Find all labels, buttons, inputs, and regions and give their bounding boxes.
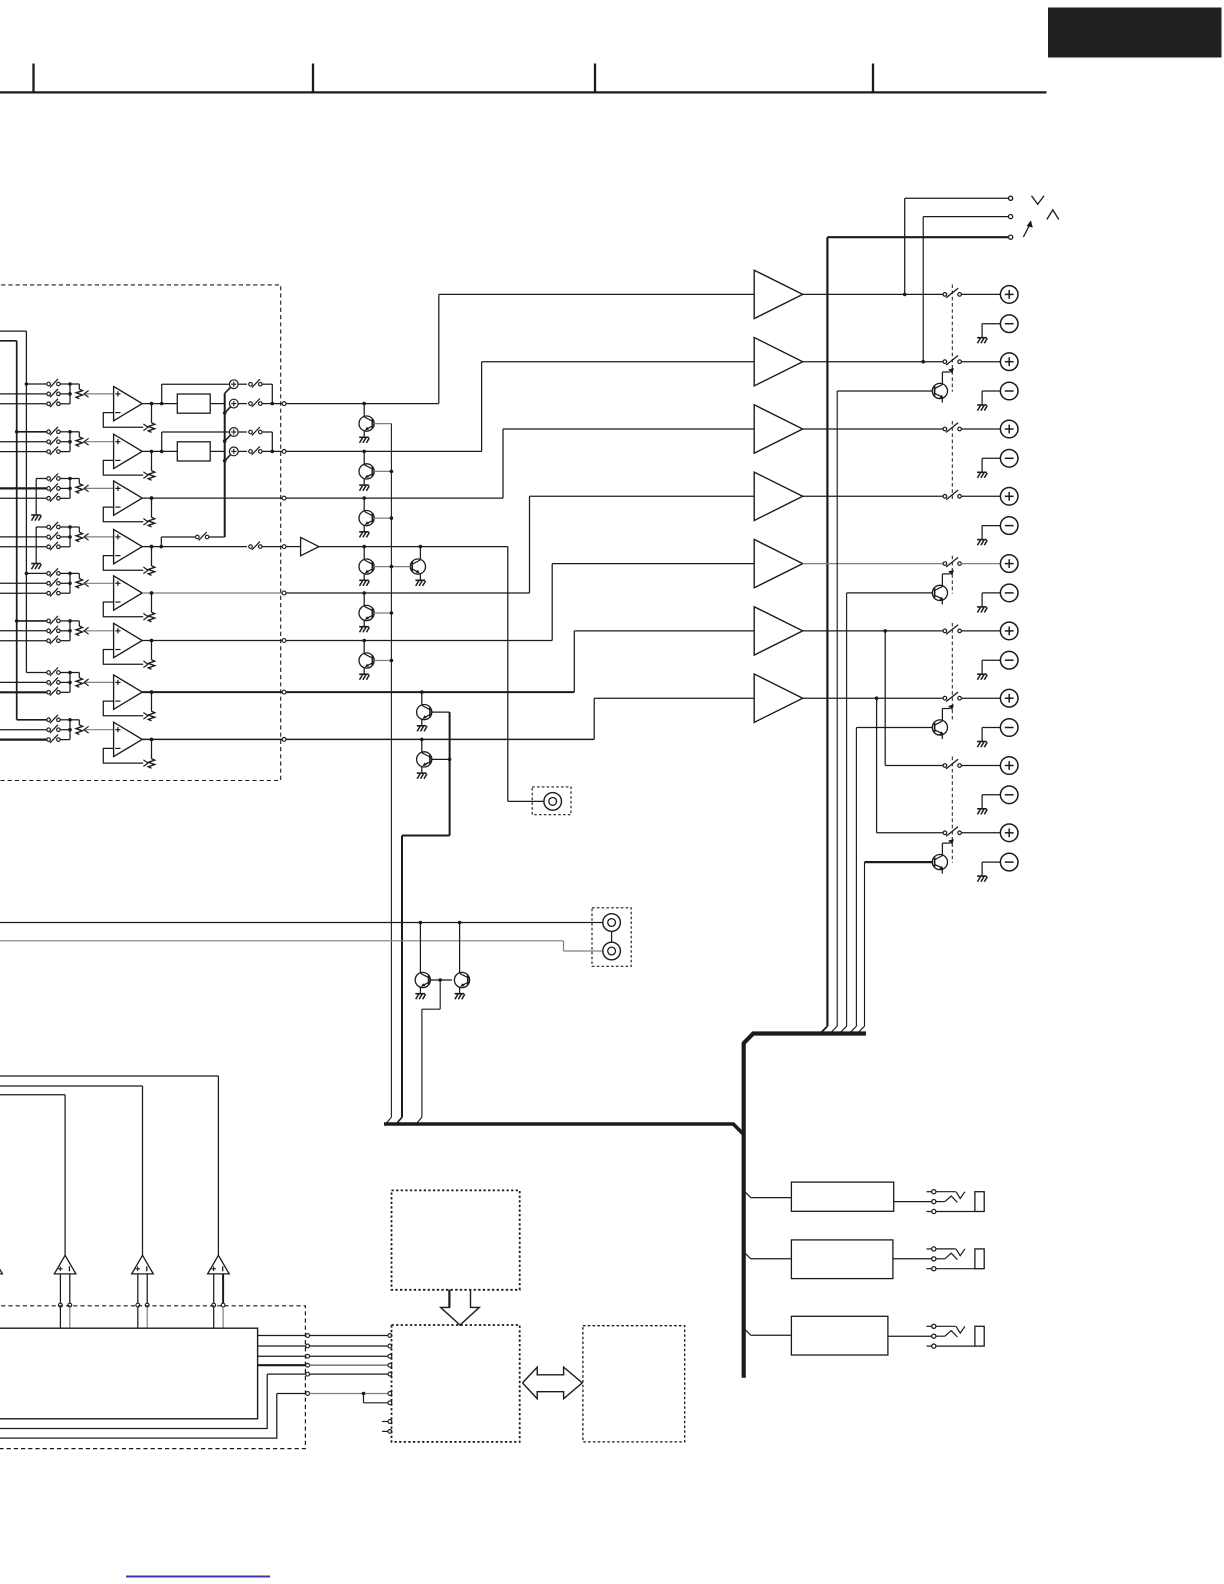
buffer amp ch4 bbox=[286, 537, 319, 555]
remote terminal B bbox=[1009, 210, 1059, 220]
remote terminal C bbox=[1009, 220, 1033, 239]
panel node ch7 bbox=[282, 690, 286, 694]
node ch2 select join bbox=[60, 430, 79, 452]
control box edge node bbox=[306, 1372, 310, 1376]
wire speaker feed 2 bbox=[803, 361, 943, 363]
speaker terminal 2+ bbox=[1000, 353, 1018, 371]
wire to record switch ch2 bbox=[238, 450, 247, 452]
feedback pot ch8 bbox=[148, 738, 154, 769]
wire speaker feed 6 bbox=[803, 630, 943, 632]
system control dashed box bbox=[0, 1306, 305, 1449]
feedback loop ch6 bbox=[103, 650, 148, 668]
speaker terminal 6+ bbox=[1000, 622, 1018, 640]
wire -terminal 2 ground bbox=[977, 391, 1000, 411]
power amp PA1 bbox=[754, 270, 803, 318]
headphone jack 2 bbox=[927, 1247, 985, 1271]
speaker terminal 9+ bbox=[1000, 824, 1018, 842]
wire ch2 to amp bbox=[286, 362, 754, 452]
filter block ch2 bbox=[177, 442, 210, 461]
flow arrow bidirectional bbox=[523, 1367, 583, 1399]
feedback pot ch3 bbox=[148, 496, 154, 527]
wire relay base pair5 bbox=[839, 593, 932, 1034]
speaker relay SW1 bbox=[943, 288, 961, 298]
pre-out mute transistor Q11 bbox=[454, 923, 469, 1000]
feedback pot ch6 bbox=[148, 639, 154, 670]
wire to +terminal 4 bbox=[961, 495, 1000, 497]
speaker terminal 5- bbox=[1000, 584, 1018, 602]
headphone jack 1 bbox=[927, 1190, 985, 1214]
mute bus Q7/Q8 drop bbox=[396, 712, 451, 1124]
DSP edge node bbox=[388, 1372, 392, 1376]
wire ch2 to panel bbox=[262, 450, 282, 454]
partial comparator bbox=[0, 1255, 2, 1274]
input select switches ch6 bbox=[0, 616, 60, 644]
wiper arrow ch8 bbox=[84, 726, 114, 733]
wire speaker feed 5 bbox=[803, 563, 943, 565]
wire top join ch2 bbox=[262, 432, 272, 451]
wire bypass riser bbox=[161, 537, 195, 547]
wire to DSP bbox=[310, 1355, 389, 1357]
node ch8 select join bbox=[60, 718, 79, 740]
speaker relay SW9 bbox=[943, 827, 961, 837]
speaker terminal 8+ bbox=[1000, 757, 1018, 775]
volume pot VR4 bbox=[76, 532, 82, 542]
wire relay base pair7 bbox=[849, 728, 932, 1034]
top rule tick 3 bbox=[594, 64, 596, 93]
speaker terminal 3- bbox=[1000, 450, 1018, 468]
DSP spare node bbox=[382, 1420, 392, 1424]
feedback loop ch4 bbox=[103, 556, 148, 574]
footer blue rule bbox=[126, 1576, 270, 1578]
summing node ch2 top bbox=[229, 428, 238, 437]
relay driver transistor pair7 bbox=[932, 705, 954, 740]
feedback pot ch2 bbox=[148, 450, 154, 481]
op-amp U7 bbox=[114, 675, 143, 709]
op-amp U1 bbox=[114, 386, 143, 420]
wire op-amp4 output bbox=[142, 545, 247, 549]
wire control out 1 bbox=[258, 1335, 306, 1337]
mute transistor Q4a bbox=[359, 545, 391, 586]
panel node ch2 bbox=[282, 450, 286, 454]
wire ch8 to amp bbox=[286, 698, 754, 739]
speaker relay SW4 bbox=[943, 490, 961, 500]
wire to record switch ch1 bbox=[238, 403, 247, 405]
volume pot VR5 bbox=[76, 579, 82, 589]
mute transistor Q5 bbox=[359, 591, 391, 632]
feedback loop ch1 bbox=[103, 413, 148, 431]
wire control feed 2 bbox=[0, 1086, 143, 1255]
wire ch3 to amp bbox=[286, 429, 754, 498]
pre-out jack pair box bbox=[592, 908, 631, 967]
wire control out 5 bbox=[0, 1374, 306, 1428]
wire ch4 to panel bbox=[262, 546, 282, 548]
wire block to jack 1 bbox=[894, 1201, 932, 1203]
pre-out jack 1 bbox=[603, 914, 621, 932]
op-amp U8 bbox=[114, 722, 143, 756]
speaker terminal 2- bbox=[1000, 382, 1018, 400]
node ch4 select join bbox=[60, 525, 79, 547]
wire to +terminal 1 bbox=[961, 293, 1000, 295]
panel node ch4 bbox=[282, 545, 286, 549]
wire headphone branch 2 bbox=[744, 1252, 792, 1259]
mute transistor Q1 bbox=[359, 402, 391, 443]
relay gang dashed link bbox=[951, 757, 953, 863]
op-amp U6 bbox=[114, 623, 143, 657]
speaker terminal 8- bbox=[1000, 786, 1018, 804]
wiper arrow ch3 bbox=[84, 485, 114, 492]
wire bus B feed (thick) bbox=[0, 341, 17, 720]
wire block1 to summer bbox=[210, 403, 225, 405]
relay gang dashed link bbox=[951, 421, 953, 499]
summing node ch1 top bbox=[229, 380, 238, 389]
wire control feed 3 bbox=[0, 1095, 65, 1256]
mute transistor Q6 bbox=[359, 639, 391, 680]
level comparator 1 bbox=[54, 1255, 76, 1274]
wire ch7 to amp bbox=[286, 631, 754, 692]
speaker terminal 7+ bbox=[1000, 689, 1018, 707]
pre-amp section dashed box bbox=[0, 285, 281, 781]
wire speaker feed 3 bbox=[803, 428, 943, 430]
input select switches ch3 bbox=[0, 474, 60, 521]
node ch3 select join bbox=[60, 477, 79, 499]
op-amp U2 bbox=[114, 434, 143, 468]
mute collect bus bbox=[384, 1124, 744, 1135]
wire to DSP bbox=[310, 1373, 389, 1375]
wire control out 6 bbox=[0, 1394, 306, 1439]
headphone driver block 2 bbox=[791, 1240, 893, 1279]
summing node ch1 main bbox=[229, 399, 238, 408]
DSP edge node bbox=[388, 1392, 392, 1396]
DSP spare node bbox=[382, 1430, 392, 1434]
summing node ch2 main bbox=[229, 447, 238, 456]
top rule tick 1 bbox=[32, 64, 34, 93]
switch ch2 top bbox=[249, 427, 262, 435]
host interface dashed box bbox=[583, 1326, 685, 1442]
panel node ch1 bbox=[282, 402, 286, 406]
wire ch2 feedback-top bbox=[162, 432, 230, 451]
wire amp1 to remote A bbox=[903, 198, 1009, 296]
wire block2 to summer bbox=[210, 450, 225, 452]
DSP edge node bbox=[388, 1334, 392, 1338]
filter block ch1 bbox=[177, 394, 210, 413]
level comparator 2 bbox=[132, 1255, 154, 1274]
relay driver transistor pair2 bbox=[932, 368, 954, 403]
panel node ch5 bbox=[282, 591, 286, 595]
speaker terminal 9- bbox=[1000, 853, 1018, 871]
speaker terminal 4+ bbox=[1000, 488, 1018, 506]
wire ch1 to panel bbox=[262, 402, 282, 406]
wire control out 4 bbox=[258, 1364, 306, 1366]
relay gang dashed link bbox=[951, 284, 953, 391]
wire -terminal 4 ground bbox=[977, 526, 1000, 546]
wire to +terminal 2 bbox=[961, 361, 1000, 363]
top rule tick 2 bbox=[312, 64, 314, 93]
relay gang dashed link bbox=[951, 556, 953, 594]
power amp PA6 bbox=[754, 607, 803, 655]
wire op-amp8 output bbox=[142, 738, 282, 742]
control box edge node bbox=[306, 1392, 310, 1396]
mute transistor Q2 bbox=[359, 450, 391, 491]
remote terminal A bbox=[1009, 196, 1045, 205]
wire to +terminal 6 bbox=[961, 630, 1000, 632]
mute transistor Q4b bbox=[391, 545, 425, 586]
video circuit dashed box bbox=[392, 1190, 520, 1289]
wire speaker feed 7 bbox=[803, 697, 943, 699]
wire -terminal 7 ground bbox=[977, 728, 1000, 748]
level comparator 3 bbox=[208, 1255, 230, 1274]
wire control out 3 bbox=[258, 1355, 306, 1357]
surround-back jack box bbox=[532, 787, 571, 815]
wire speaker feed 4 bbox=[803, 495, 943, 497]
wire control feed 1 bbox=[0, 1076, 218, 1255]
wire to DSP split bbox=[310, 1392, 389, 1403]
surround-back jack bbox=[544, 793, 562, 811]
wire op-amp2 output bbox=[142, 450, 177, 454]
input select switches ch2 bbox=[0, 427, 60, 455]
wire headphone branch 1 bbox=[744, 1191, 792, 1198]
feedback pot ch1 bbox=[148, 402, 154, 433]
wire -terminal 1 ground bbox=[977, 324, 1000, 344]
wire block to jack 3 bbox=[888, 1335, 932, 1337]
wire op-amp1 output bbox=[142, 402, 177, 406]
op-amp U4 bbox=[114, 529, 143, 563]
volume pot VR3 bbox=[76, 484, 82, 494]
DSP edge node bbox=[388, 1344, 392, 1348]
relay driver transistor pair9 bbox=[932, 839, 954, 874]
DSP edge node bbox=[388, 1401, 392, 1405]
panel node ch6 bbox=[282, 639, 286, 643]
wire speaker feed 8 bbox=[883, 629, 943, 765]
mute transistor Q3 bbox=[359, 496, 391, 537]
wiper arrow ch6 bbox=[84, 627, 114, 634]
wire -terminal 9 ground bbox=[977, 862, 1000, 882]
speaker relay SW5 bbox=[943, 557, 961, 567]
DSP edge node bbox=[388, 1363, 392, 1367]
mute base bus bbox=[386, 424, 394, 1124]
wire top switch ch2 bbox=[238, 431, 247, 433]
feedback loop ch8 bbox=[103, 748, 148, 766]
wire bypass to bus bbox=[209, 536, 225, 538]
speaker terminal 7- bbox=[1000, 719, 1018, 737]
node ch6 select join bbox=[60, 619, 79, 641]
power amp PA5 bbox=[754, 539, 803, 587]
wiper arrow ch1 bbox=[84, 391, 114, 398]
volume pot VR8 bbox=[76, 725, 82, 735]
feedback pot ch7 bbox=[148, 690, 154, 721]
title block (black) bbox=[1048, 8, 1222, 58]
volume pot VR1 bbox=[76, 389, 82, 399]
DSP dashed box bbox=[392, 1325, 520, 1442]
speaker terminal 1- bbox=[1000, 315, 1018, 333]
panel node ch8 bbox=[282, 738, 286, 742]
mute transistor Q7 bbox=[417, 690, 450, 731]
wire to +terminal 8 bbox=[961, 765, 1000, 767]
flow arrow down bbox=[441, 1290, 480, 1325]
wire to +terminal 5 bbox=[961, 563, 1000, 565]
volume pot VR6 bbox=[76, 626, 82, 636]
page top rule bbox=[0, 91, 1047, 93]
input select switches ch1 bbox=[0, 379, 60, 407]
node ch1 select join bbox=[60, 382, 79, 404]
wire to DSP bbox=[310, 1345, 389, 1347]
wire block to jack 2 bbox=[893, 1258, 932, 1260]
wire op-amp7 output bbox=[142, 690, 282, 694]
switch ch2 main bbox=[249, 446, 262, 454]
wire op-amp5 output bbox=[142, 591, 282, 595]
speaker terminal 5+ bbox=[1000, 555, 1018, 573]
wire ch5 to amp bbox=[286, 496, 754, 593]
wire relay base pair2 bbox=[830, 391, 932, 1034]
pre-out line 2 bbox=[0, 941, 603, 951]
wire -terminal 8 ground bbox=[977, 795, 1000, 815]
wire to DSP bbox=[310, 1364, 389, 1366]
input select switches ch7 bbox=[0, 668, 60, 696]
comparator inputs 3 bbox=[212, 1274, 225, 1328]
wire relay base pair9 bbox=[857, 862, 932, 1033]
wire ch1 to amp bbox=[286, 294, 754, 403]
input select switches ch8 bbox=[0, 715, 60, 743]
wire to +terminal 7 bbox=[961, 697, 1000, 699]
volume pot VR7 bbox=[76, 678, 82, 688]
speaker terminal 4- bbox=[1000, 517, 1018, 535]
wire -terminal 3 ground bbox=[977, 458, 1000, 478]
feedback pot ch4 bbox=[148, 545, 154, 576]
feedback loop ch3 bbox=[103, 507, 148, 525]
input select switches ch4 bbox=[0, 522, 60, 569]
wire to DSP bbox=[310, 1335, 389, 1337]
op-amp U3 bbox=[114, 481, 143, 515]
wire speaker feed 1 bbox=[803, 293, 943, 295]
feedback loop ch5 bbox=[103, 602, 148, 620]
wire speaker feed 9 bbox=[875, 696, 943, 832]
pre-out line 1 bbox=[0, 921, 603, 925]
input select switches ch5 bbox=[0, 568, 60, 596]
speaker relay SW8 bbox=[943, 759, 961, 769]
speaker relay SW3 bbox=[943, 423, 961, 433]
power amp PA3 bbox=[754, 405, 803, 453]
comparator inputs 1 bbox=[59, 1274, 72, 1328]
relay driver transistor pair5 bbox=[932, 570, 954, 605]
headphone jack 3 bbox=[927, 1324, 985, 1348]
speaker terminal 3+ bbox=[1000, 420, 1018, 438]
volume pot VR2 bbox=[76, 437, 82, 447]
speaker relay SW2 bbox=[943, 356, 961, 366]
wire top switch ch1 bbox=[238, 383, 247, 385]
control box edge node bbox=[306, 1334, 310, 1338]
wire control out 2 bbox=[258, 1345, 306, 1347]
wire to +terminal 9 bbox=[961, 832, 1000, 834]
wire -terminal 6 ground bbox=[977, 660, 1000, 680]
power amp PA2 bbox=[754, 338, 803, 386]
wiper arrow ch2 bbox=[84, 438, 114, 445]
headphone driver block 3 bbox=[791, 1316, 888, 1355]
top rule tick 4 bbox=[872, 64, 874, 93]
wire op-amp6 output bbox=[142, 639, 282, 643]
wiper arrow ch5 bbox=[84, 580, 114, 587]
speaker terminal 6- bbox=[1000, 651, 1018, 669]
system control IC box bbox=[0, 1328, 258, 1419]
wire to +terminal 3 bbox=[961, 428, 1000, 430]
pre-out jack link bbox=[611, 931, 613, 942]
wire ch4 to pre-out bbox=[319, 547, 544, 802]
switch ch4 output bbox=[249, 542, 262, 550]
node ch7 select join bbox=[60, 671, 79, 693]
power amp PA4 bbox=[754, 472, 803, 520]
power amp PA7 bbox=[754, 674, 803, 722]
wiper arrow ch7 bbox=[84, 679, 114, 686]
speaker terminal 1+ bbox=[1000, 286, 1018, 304]
wire bus A feed bbox=[0, 331, 26, 672]
wire ch1 feedback-top bbox=[162, 384, 230, 403]
mute transistor Q8 bbox=[417, 738, 450, 779]
op-amp U5 bbox=[114, 576, 143, 610]
pre-out jack 2 bbox=[603, 942, 621, 960]
wiper arrow ch4 bbox=[84, 534, 114, 541]
comparator inputs 2 bbox=[136, 1274, 149, 1328]
pre-out mute base link bbox=[416, 978, 452, 1124]
headphone driver block 1 bbox=[791, 1182, 893, 1211]
panel node ch3 bbox=[282, 496, 286, 500]
wire trigger bus bbox=[820, 237, 1008, 1033]
control box edge node bbox=[306, 1354, 310, 1358]
wire amp2 to remote B bbox=[921, 217, 1008, 364]
wire top join ch1 bbox=[262, 384, 272, 403]
pre-out mute transistor Q10 bbox=[415, 923, 430, 1000]
control box edge node bbox=[306, 1344, 310, 1348]
bypass switch ch4 bbox=[196, 532, 209, 540]
switch ch1 main bbox=[249, 399, 262, 407]
feedback loop ch2 bbox=[103, 460, 148, 478]
feedback pot ch5 bbox=[148, 591, 154, 622]
wire -terminal 5 ground bbox=[977, 593, 1000, 613]
node ch5 select join bbox=[60, 572, 79, 594]
switch ch1 top bbox=[249, 379, 262, 387]
record select bus bbox=[223, 387, 231, 537]
control box edge node bbox=[306, 1363, 310, 1367]
wire headphone branch 3 bbox=[744, 1328, 792, 1335]
speaker relay SW7 bbox=[943, 692, 961, 702]
relay gang dashed link bbox=[951, 623, 953, 722]
feedback loop ch7 bbox=[103, 701, 148, 719]
wire ch6 to amp bbox=[286, 564, 754, 641]
protection collector bus bbox=[744, 1034, 866, 1378]
DSP edge node bbox=[388, 1354, 392, 1358]
speaker relay SW6 bbox=[943, 625, 961, 635]
wire op-amp3 output bbox=[142, 496, 282, 500]
